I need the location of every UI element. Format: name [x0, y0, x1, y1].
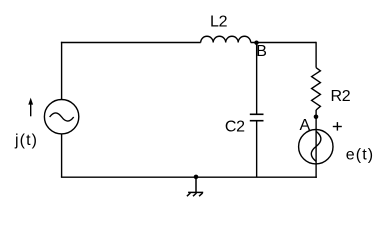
wire left vertical lower [61, 134, 63, 177]
inductor L2 [201, 36, 251, 42]
ground hatch slash 2 [193, 193, 197, 196]
capacitor C2 top plate [250, 113, 264, 115]
wire top left segment [61, 42, 201, 44]
wire top right segment [251, 42, 316, 44]
svg-text:L2: L2 [210, 13, 228, 30]
wire node B branch upper [256, 42, 258, 114]
ground stem [195, 177, 197, 192]
svg-text:R2: R2 [331, 88, 351, 105]
wire right vertical bottom stub [315, 164, 317, 178]
svg-text:A: A [300, 117, 311, 134]
wire left vertical upper [61, 42, 63, 100]
capacitor C2 bottom plate [250, 120, 264, 122]
current source j(t) sine [50, 113, 74, 121]
node A junction dot [314, 115, 319, 120]
svg-text:j(t): j(t) [14, 132, 38, 149]
wire through source e(t) [315, 130, 317, 164]
current source j(t) circle [44, 100, 78, 134]
current direction arrow head [28, 98, 33, 105]
svg-text:C2: C2 [225, 118, 245, 135]
wire right vertical top [315, 42, 317, 68]
ground hatch slash 1 [187, 193, 191, 196]
ground hatch slash 3 [199, 193, 203, 196]
svg-text:e(t): e(t) [346, 147, 374, 164]
resistor R2 [312, 68, 321, 110]
ground bar [188, 191, 203, 193]
wire node B branch lower [256, 121, 258, 177]
ground junction dot [194, 175, 199, 180]
node B junction dot [254, 41, 258, 45]
wire right vertical mid [315, 110, 317, 130]
voltage source e(t) sine [311, 131, 321, 161]
current direction arrow shaft [30, 104, 32, 116]
voltage source e(t) circle [299, 130, 333, 164]
wire bottom [61, 176, 317, 178]
svg-text:B: B [256, 43, 266, 60]
plus polarity sign [333, 126, 342, 128]
